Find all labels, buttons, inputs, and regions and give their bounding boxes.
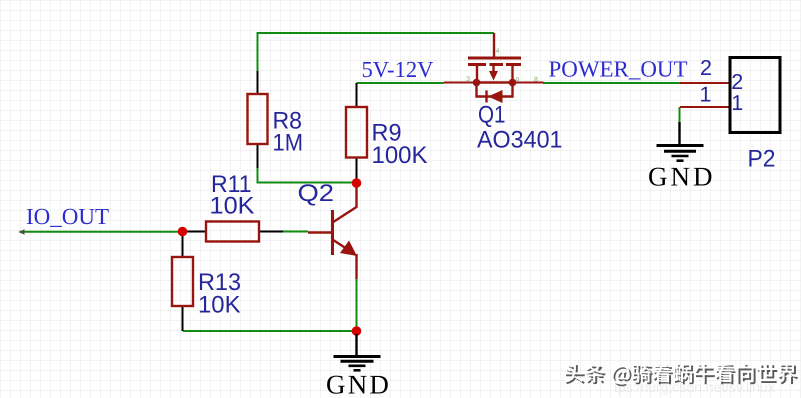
P2 pin name 1 inside xyxy=(731,91,743,115)
svg-text:10K: 10K xyxy=(210,193,255,220)
net label POWER_OUT xyxy=(549,56,688,81)
svg-text:100K: 100K xyxy=(372,142,428,169)
label R8 value 1M xyxy=(273,107,304,156)
wire IO_OUT net xyxy=(19,229,184,235)
wire emitter to ground rail xyxy=(356,278,358,331)
resistor R9 xyxy=(346,83,367,180)
svg-text:8: 8 xyxy=(534,77,538,84)
resistor R11 xyxy=(183,222,308,242)
label R9 value 100K xyxy=(372,120,428,169)
wire 5V-12V net xyxy=(357,82,445,84)
net label 5V-12V xyxy=(362,57,434,82)
svg-text:10K: 10K xyxy=(198,292,241,319)
wire ground rail R13 to GND node xyxy=(183,330,357,332)
label Q1 xyxy=(478,102,506,129)
wire top rail from R8 to Q1 gate xyxy=(258,33,495,72)
svg-text:P2: P2 xyxy=(748,146,776,173)
ground GND right xyxy=(657,122,704,161)
label GND bottom xyxy=(326,370,391,398)
svg-text:GND: GND xyxy=(648,162,716,192)
transistor Q2 NPN xyxy=(308,187,357,279)
Q1 pin number marks xyxy=(466,48,538,84)
node A junction R9/Q2/R8 xyxy=(352,178,362,188)
svg-text:2: 2 xyxy=(700,56,712,80)
node B junction IO_OUT/R11/R13 xyxy=(178,227,188,237)
svg-text:POWER_OUT: POWER_OUT xyxy=(549,56,688,81)
label Q2 xyxy=(298,180,335,207)
svg-text:1M: 1M xyxy=(273,129,304,156)
watermark headline text xyxy=(564,363,796,384)
svg-text:5V-12V: 5V-12V xyxy=(362,57,434,82)
label GND right xyxy=(648,162,716,192)
svg-text:Q1: Q1 xyxy=(478,102,506,129)
label R11 value 10K xyxy=(210,171,255,220)
label AO3401 xyxy=(477,127,563,154)
P2 pin name 2 inside xyxy=(731,70,743,94)
label R13 value 10K xyxy=(198,269,241,319)
svg-text:Q2: Q2 xyxy=(298,180,335,207)
svg-text:1: 1 xyxy=(700,83,712,107)
svg-text:AO3401: AO3401 xyxy=(477,127,563,154)
watermark headline shadow xyxy=(566,365,798,386)
wire P2 pin1 to GND stub xyxy=(679,107,681,123)
svg-text:4: 4 xyxy=(496,48,500,55)
svg-text:IO_OUT: IO_OUT xyxy=(26,204,109,229)
wire R8 bottom to node A xyxy=(258,167,357,183)
svg-text:о: о xyxy=(516,76,520,83)
resistor R8 xyxy=(248,71,268,168)
svg-text:3: 3 xyxy=(466,76,470,83)
resistor R13 xyxy=(172,234,193,331)
node C junction emitter/R13/GND xyxy=(352,326,362,336)
svg-text:1: 1 xyxy=(731,91,743,115)
transistor Q1 PMOS xyxy=(444,33,544,103)
svg-text:GND: GND xyxy=(326,370,391,398)
connector P2 xyxy=(680,58,780,133)
label P2 xyxy=(748,146,776,173)
P2 pin number 1 outside xyxy=(700,83,712,107)
ground GND bottom xyxy=(334,334,381,370)
net label IO_OUT xyxy=(26,204,109,229)
wire Q1 drain to P2 pin2 xyxy=(543,82,680,84)
P2 pin number 2 outside xyxy=(700,56,712,80)
watermark ghost url xyxy=(614,379,775,395)
